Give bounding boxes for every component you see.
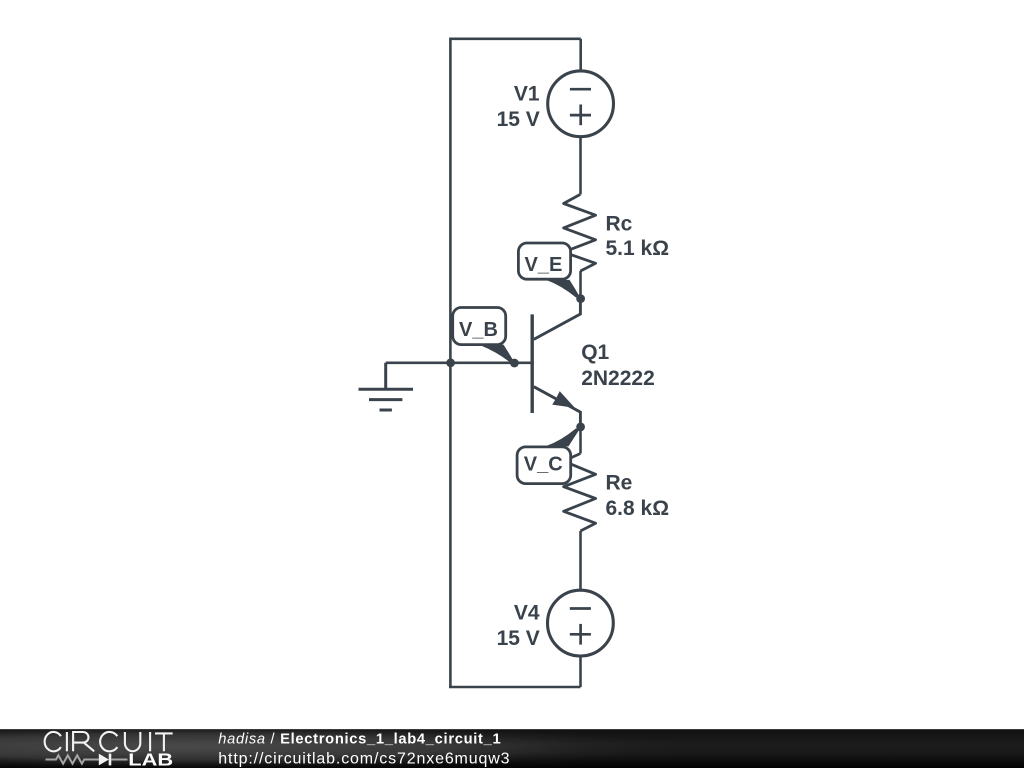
footer bar glow [0, 729, 1024, 768]
svg-text:15 V: 15 V [497, 627, 540, 650]
ground symbol [359, 363, 414, 410]
transistor Q1 emitter arrow [552, 391, 575, 408]
svg-text:2N2222: 2N2222 [581, 367, 655, 390]
logo resistor squiggle [46, 755, 99, 763]
wire top horizontal [450, 37, 581, 40]
footer bar [0, 729, 1024, 768]
svg-text:6.8 kΩ: 6.8 kΩ [606, 497, 670, 520]
resistor Rc [564, 194, 596, 271]
voltage source V4 [548, 590, 614, 656]
svg-text:V_E: V_E [525, 254, 563, 276]
wire V1 top lead [579, 39, 582, 71]
svg-text:V1: V1 [514, 82, 540, 105]
svg-text:LAB: LAB [128, 750, 173, 768]
wire V4 bottom lead [579, 656, 582, 687]
svg-text:Re: Re [606, 471, 633, 494]
flag V_B [453, 308, 514, 363]
resistor Re [564, 454, 596, 532]
wire left rail [449, 38, 452, 688]
svg-text:hadisa / Electronics_1_lab4_ci: hadisa / Electronics_1_lab4_circuit_1 [218, 732, 501, 748]
transistor Q1 collector lead [534, 299, 581, 340]
svg-text:15 V: 15 V [497, 108, 540, 131]
wire V1 to Rc [579, 137, 582, 195]
wire emitter node to Re [579, 427, 582, 454]
transistor Q1 base bar [531, 314, 534, 413]
node dot emitter V_C [576, 423, 585, 432]
wire bottom horizontal [449, 686, 581, 689]
node dot collector V_E [576, 294, 585, 303]
node dot base junction [446, 358, 455, 367]
voltage source V1 [548, 71, 614, 137]
node dot V_B [510, 359, 519, 368]
flag V_C [517, 429, 580, 484]
wire base [450, 361, 531, 364]
svg-text:http://circuitlab.com/cs72nxe6: http://circuitlab.com/cs72nxe6muqw3 [218, 750, 510, 767]
flag V_E [518, 243, 579, 297]
svg-text:5.1 kΩ: 5.1 kΩ [606, 237, 670, 260]
wire ground to base [386, 361, 450, 364]
svg-text:Q1: Q1 [581, 341, 609, 364]
logo CIRCUIT wordmark [45, 732, 173, 751]
svg-text:V4: V4 [514, 601, 540, 624]
footer bar top edge [0, 729, 1024, 731]
wire Rc to collector node [579, 271, 582, 299]
svg-text:V_B: V_B [459, 319, 498, 341]
logo diode [99, 754, 128, 766]
transistor Q1 emitter lead [534, 387, 581, 427]
svg-text:V_C: V_C [524, 454, 563, 476]
svg-text:Rc: Rc [606, 212, 633, 235]
wire Re to V4 [579, 531, 582, 590]
